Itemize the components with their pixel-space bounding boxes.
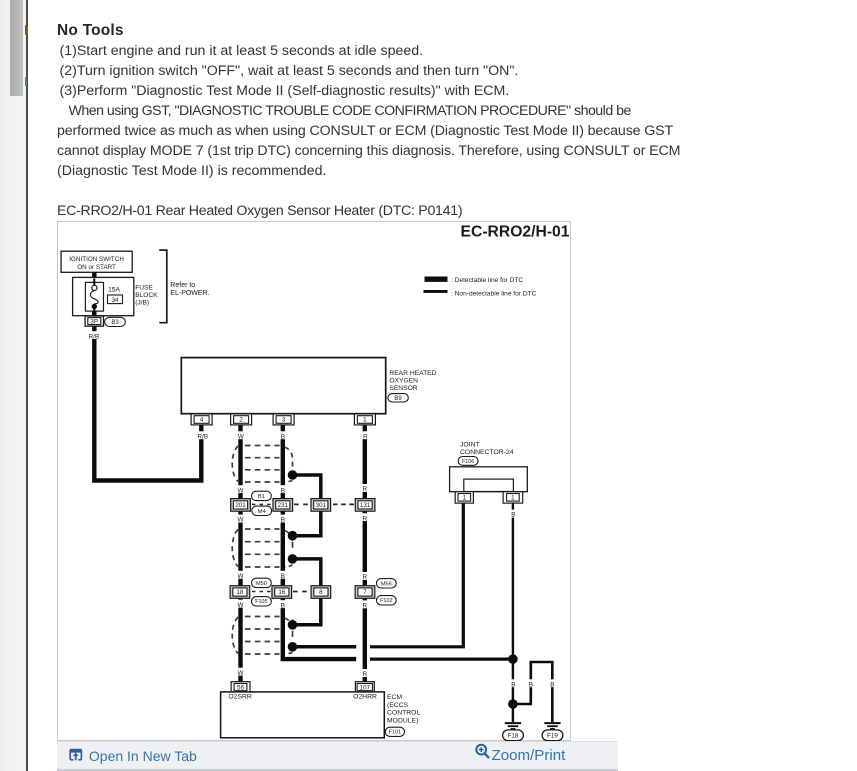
svg-text:ON or START: ON or START (77, 263, 116, 270)
wire: R/B from fuse down-right-up to sensor pin 4 (94, 311, 201, 480)
connector pair M50 / F105 (251, 578, 271, 587)
svg-text:EL-POWER.: EL-POWER. (170, 290, 209, 297)
svg-text:16: 16 (278, 589, 285, 596)
svg-text:W: W (237, 572, 243, 579)
svg-text:R: R (362, 486, 367, 493)
body text (57, 23, 124, 38)
connector row 2: pass-through 8 (drain) (311, 585, 331, 598)
svg-text:M50: M50 (255, 580, 266, 586)
connector pair M56 / F102 (376, 578, 396, 587)
shield drain wire: shield3 lower dot to joint connector left pin 1 (295, 645, 356, 649)
svg-text:OXYGEN: OXYGEN (389, 377, 418, 384)
svg-text:3: 3 (281, 416, 285, 423)
svg-text:BLOCK: BLOCK (135, 291, 158, 298)
svg-text:JOINT: JOINT (460, 441, 480, 448)
connector row 1: pass-through 131 (R) (355, 498, 375, 511)
junction dot above F18 (508, 699, 518, 709)
svg-text:4: 4 (199, 416, 203, 423)
svg-text:W: W (237, 487, 243, 494)
svg-text:131: 131 (359, 502, 370, 509)
connector F106 (458, 456, 478, 465)
svg-text:B1: B1 (257, 494, 264, 500)
B labels near grounds (509, 679, 516, 687)
svg-text:B: B (550, 681, 554, 688)
svg-text:7: 7 (363, 589, 367, 596)
connector B3 (104, 317, 125, 326)
fuse block (J/B) box (72, 277, 133, 315)
svg-text:2: 2 (239, 416, 243, 423)
svg-text:B: B (280, 516, 284, 523)
small icon artifact on divider (olive) (25, 25, 28, 35)
connector F101 (385, 727, 404, 736)
svg-text:R: R (362, 515, 367, 522)
joint connector left pin 1 (455, 491, 473, 502)
connector row 1: pass-through 301 (drain) (311, 498, 331, 511)
svg-text:F105: F105 (255, 599, 267, 605)
ECM (ECCS control module) box (220, 691, 384, 737)
ECM pin 56 (231, 681, 250, 691)
connector pair B1 / M4 (251, 491, 271, 500)
svg-text:M4: M4 (257, 508, 266, 514)
wire: joint connector right pin 1 down to ground node (511, 503, 513, 654)
svg-text:1: 1 (363, 416, 367, 423)
shield drain wire: column between row1 box and shield2 (295, 511, 320, 536)
wire colour labels below sensor pins (194, 431, 210, 439)
ground symbol F19 (544, 722, 560, 724)
svg-text:R: R (362, 602, 367, 609)
sensor pin 1 (354, 413, 375, 424)
svg-text:Refer to: Refer to (170, 282, 195, 289)
svg-text:R: R (362, 671, 367, 678)
ignition switch supply box (61, 251, 132, 272)
svg-text:56: 56 (237, 684, 244, 691)
dashed link between 201 and 231 (252, 503, 272, 505)
Zoom/Print link (492, 747, 566, 764)
svg-text:R: R (362, 574, 367, 581)
connector row 2: pass-through 18 (W) (230, 585, 250, 598)
svg-text:3P: 3P (90, 318, 98, 325)
pane divider line (26, 0, 28, 771)
svg-text:8: 8 (319, 589, 323, 596)
wiring diagram frame (57, 221, 572, 741)
svg-text:B: B (280, 572, 284, 579)
joint connector-24 body (449, 466, 527, 491)
dashed link row 2 (293, 590, 310, 592)
scrollbar thumb (10, 0, 23, 96)
svg-text:REAR HEATED: REAR HEATED (389, 369, 436, 376)
shield drain wire: shield1 dot to joint-connector column (295, 475, 320, 500)
connector row 1: pass-through 201 (W) (230, 498, 250, 511)
svg-text:B: B (511, 681, 515, 688)
viewer footer bar (57, 741, 619, 769)
svg-text:MODULE): MODULE) (387, 717, 418, 724)
wire: R (sensor pin 1 to ECM pin 107) (362, 424, 366, 681)
connector row 1: pass-through 231 (B) (273, 498, 293, 511)
svg-text:CONNECTOR-24: CONNECTOR-24 (460, 449, 514, 456)
sensor pin 3 (273, 413, 294, 424)
dashed link between 18 and 16 (252, 590, 272, 592)
svg-text:W: W (237, 669, 243, 676)
svg-text:F101: F101 (388, 729, 400, 735)
svg-text:EC-RRO2/H-01: EC-RRO2/H-01 (460, 223, 569, 240)
svg-text:B3: B3 (111, 320, 119, 326)
svg-text:F102: F102 (380, 598, 392, 604)
svg-text:34: 34 (111, 296, 119, 303)
wire: ignition switch to fuse block (92, 272, 96, 278)
wire colour labels above ECM pins (237, 667, 244, 675)
svg-text:18: 18 (236, 589, 243, 596)
svg-text:231: 231 (277, 502, 288, 509)
svg-text:201: 201 (235, 502, 246, 509)
svg-text:FUSE: FUSE (135, 284, 153, 291)
svg-text:W: W (237, 516, 243, 523)
svg-text:15A: 15A (108, 286, 121, 293)
legend: detectable line for DTC (424, 276, 447, 281)
ground symbol F18 (504, 722, 520, 724)
sensor pin 4 (191, 413, 212, 424)
legend: non-detectable line for DTC (423, 290, 447, 293)
svg-text:IGNITION SWITCH: IGNITION SWITCH (69, 256, 124, 263)
svg-text:R: R (363, 433, 368, 440)
svg-text:B9: B9 (394, 396, 402, 402)
svg-text:B: B (280, 487, 284, 494)
svg-text:B: B (280, 602, 284, 609)
connector row 2: pass-through 16 (B) (272, 585, 292, 598)
sensor pin 2 (230, 413, 251, 424)
svg-text:1: 1 (511, 494, 515, 501)
svg-text:O2HRR: O2HRR (353, 693, 377, 700)
ground node junction dot (508, 654, 518, 664)
open-in-new-tab icon (68, 746, 84, 762)
svg-text:F19: F19 (547, 732, 558, 739)
svg-text:107: 107 (359, 684, 370, 691)
svg-text:W: W (237, 601, 243, 608)
shield2 drain junction dots (287, 530, 297, 540)
wire: ground node down to F18 (511, 659, 513, 722)
svg-text:F18: F18 (507, 732, 518, 739)
svg-text:B: B (511, 511, 515, 518)
small icon artifact on divider (slate) (25, 77, 28, 86)
wire colour labels around connector row 1 (237, 485, 244, 493)
B label below joint right pin (509, 509, 516, 517)
wire: B (sensor pin 3 down, then right to ground node) (282, 424, 355, 658)
wire label R/B (fuse output) (85, 331, 101, 339)
shield1 drain junction dot (287, 470, 297, 480)
svg-text:R/B: R/B (88, 333, 99, 340)
svg-text:W: W (237, 433, 243, 440)
wire: branch to F19 (up-over-down) (515, 662, 552, 722)
fuse 15A [34] (85, 282, 103, 311)
rear heated oxygen sensor box (181, 357, 385, 413)
svg-text:B: B (528, 681, 532, 688)
Open In New Tab link (89, 748, 197, 764)
wire colour labels around connector row 2 (237, 570, 244, 578)
svg-text:301: 301 (315, 502, 326, 509)
ECM pin 107 (355, 681, 374, 691)
svg-text:ECM: ECM (387, 694, 402, 701)
dashed links row 1 (294, 503, 309, 505)
svg-text:O2SRR: O2SRR (228, 693, 252, 700)
shielded-cable section 3 (dashed) (245, 615, 280, 617)
shield drain wire: row2 box down to shield3 (295, 597, 320, 624)
svg-text:SENSOR: SENSOR (389, 384, 417, 391)
svg-text:B: B (280, 433, 284, 440)
svg-text:CONTROL: CONTROL (387, 709, 420, 716)
svg-text:: Non-detectable line for DTC: : Non-detectable line for DTC (451, 290, 537, 297)
wire: W (sensor pin 2 to ECM pin 56) (238, 424, 242, 681)
shield3 drain junction dots (287, 620, 297, 630)
shielded-cable section 2 (dashed) (245, 528, 280, 530)
svg-text:R/B: R/B (197, 433, 208, 440)
left scrollbar track (0, 0, 26, 771)
shield drain wire: shield2 lower dot to row2 box (295, 558, 320, 586)
svg-text:: Detectable line for DTC: : Detectable line for DTC (451, 277, 523, 284)
svg-text:(ECCS: (ECCS (387, 701, 409, 708)
svg-text:(J/B): (J/B) (135, 299, 149, 306)
EL-POWER reference bracket (159, 250, 167, 323)
zoom/print magnifier icon (473, 741, 493, 761)
connector 3P (fuse block output) (85, 316, 103, 326)
svg-text:F106: F106 (461, 458, 473, 464)
connector row 2: pass-through 7 (R) (355, 585, 375, 598)
joint connector right pin 1 (503, 491, 523, 502)
connector B9 (387, 393, 407, 401)
svg-text:1: 1 (462, 494, 466, 501)
svg-text:M56: M56 (380, 581, 391, 587)
shielded-cable section 1 (dashed) (245, 444, 280, 446)
